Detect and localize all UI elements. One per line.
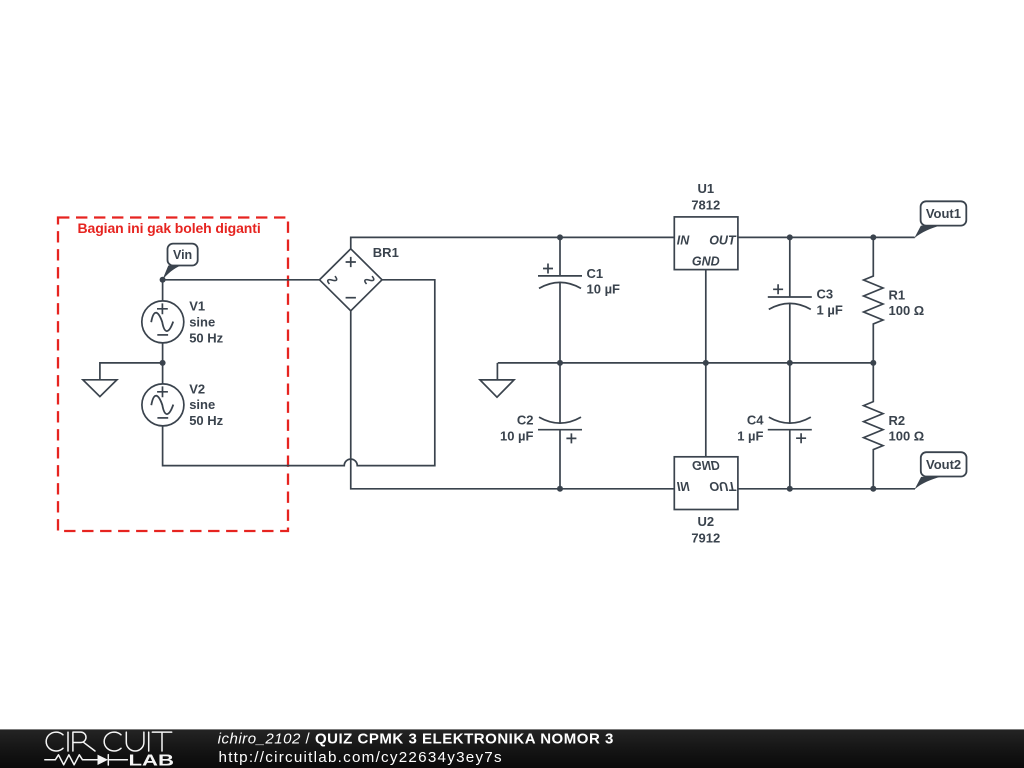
- svg-text:C3: C3: [817, 287, 834, 302]
- wire U1 OUT to Vout1: [738, 236, 915, 238]
- svg-text:C1: C1: [587, 266, 604, 281]
- regulator U2 7912 (flipped vertically): [674, 457, 738, 545]
- bridge rectifier BR1: [320, 245, 399, 311]
- wire U2 OUT to Vout2: [738, 488, 915, 490]
- svg-text:7912: 7912: [691, 530, 720, 545]
- svg-text:http://circuitlab.com/cy22634y: http://circuitlab.com/cy22634y3ey7s: [219, 749, 503, 766]
- junction dot bottom bus at C4: [787, 486, 793, 492]
- junction dot ground bus at R1 R2: [870, 360, 876, 366]
- annotation red dashed box: [58, 218, 288, 532]
- svg-text:50 Hz: 50 Hz: [189, 413, 223, 428]
- svg-text:sine: sine: [189, 397, 215, 412]
- capacitor C4 1 uF: [737, 363, 812, 489]
- svg-text:C4: C4: [747, 413, 764, 428]
- voltage source V1 sine 50 Hz: [142, 299, 224, 346]
- junction dot ground bus at U regulators: [703, 360, 709, 366]
- svg-text:10 µF: 10 µF: [500, 429, 534, 444]
- wire U2 GND to ground bus: [705, 363, 707, 457]
- svg-text:BR1: BR1: [373, 245, 399, 260]
- junction dot Vin node: [160, 277, 166, 283]
- node Vin flag: [162, 244, 198, 281]
- voltage source V2 sine 50 Hz: [142, 381, 224, 428]
- svg-text:100 Ω: 100 Ω: [889, 429, 925, 444]
- wire V1 minus to V2 plus: [162, 343, 164, 384]
- svg-text:LAB: LAB: [129, 752, 175, 768]
- svg-text:Bagian ini gak boleh diganti: Bagian ini gak boleh diganti: [78, 220, 261, 236]
- svg-text:U1: U1: [697, 181, 714, 196]
- junction dot top bus at R1: [870, 234, 876, 240]
- node Vout1 flag: [914, 201, 966, 238]
- svg-text:V1: V1: [189, 299, 205, 314]
- svg-text:50 Hz: 50 Hz: [189, 330, 223, 345]
- wire U1 GND to ground bus: [705, 270, 707, 363]
- CircuitLab logo: [45, 732, 174, 768]
- svg-text:7812: 7812: [691, 198, 720, 213]
- svg-text:10 µF: 10 µF: [587, 282, 621, 297]
- wire Vin horizontal to bridge: [163, 279, 320, 281]
- svg-text:R2: R2: [889, 413, 906, 428]
- regulator U1 7812: [674, 181, 738, 270]
- capacitor C3 1 uF: [768, 237, 843, 363]
- svg-text:1 µF: 1 µF: [737, 429, 763, 444]
- svg-text:100 Ω: 100 Ω: [889, 303, 925, 318]
- resistor R2 100 ohm: [864, 363, 925, 489]
- resistor R1 100 ohm: [864, 237, 925, 363]
- junction dot top bus at C3: [787, 234, 793, 240]
- wire bridge plus to top bus / U1 IN: [351, 237, 675, 248]
- svg-text:sine: sine: [189, 315, 215, 330]
- svg-text:Vout1: Vout1: [926, 206, 961, 221]
- footer bar: [0, 729, 1024, 768]
- junction dot top bus at C1: [557, 234, 563, 240]
- svg-text:V2: V2: [189, 381, 205, 396]
- junction dot bottom bus at R2: [870, 486, 876, 492]
- wire Vin dot to V1 plus: [162, 280, 164, 301]
- wire bridge minus to bottom bus / U2 IN: [351, 311, 675, 489]
- svg-text:U2: U2: [697, 514, 714, 529]
- ground (left, between V1 and V2): [83, 363, 163, 397]
- junction dot between V1 and V2: [160, 360, 166, 366]
- svg-text:R1: R1: [889, 287, 906, 302]
- capacitor C1 10 uF: [538, 237, 620, 363]
- wire V2 minus to bridge AC2 (with hop over bridge minus wire): [163, 280, 435, 466]
- node Vout2 flag: [915, 452, 967, 489]
- junction dot ground bus at C2: [557, 360, 563, 366]
- svg-text:C2: C2: [517, 413, 534, 428]
- ground (mid, at left end of ground bus): [480, 363, 514, 397]
- wire mid ground bus: [498, 362, 874, 364]
- svg-text:1 µF: 1 µF: [817, 302, 843, 317]
- capacitor C2 10 uF: [500, 363, 582, 489]
- svg-text:ichiro_2102 / QUIZ CPMK 3 ELEK: ichiro_2102 / QUIZ CPMK 3 ELEKTRONIKA NO…: [218, 731, 614, 748]
- svg-text:Vout2: Vout2: [926, 457, 961, 472]
- svg-text:Vin: Vin: [173, 248, 192, 262]
- junction dot ground bus at C4: [787, 360, 793, 366]
- junction dot bottom bus at C2: [557, 486, 563, 492]
